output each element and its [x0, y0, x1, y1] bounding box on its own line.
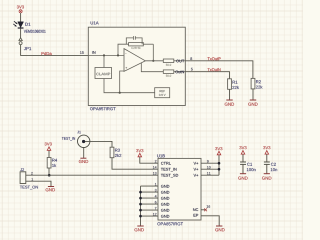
V+ pins: [201, 155, 219, 175]
feedback value text: [131, 47, 140, 49]
junction: [119, 92, 121, 94]
junction: [103, 54, 105, 56]
pin number 2: [155, 160, 157, 162]
pin names V+: [194, 162, 199, 177]
GND pin names: [161, 185, 169, 218]
wire R3 to U1B TEST_IN: [112, 158, 158, 170]
input polarity marks: [124, 52, 127, 54]
wire J2 pin1 to gnd: [26, 181, 51, 186]
junction: [117, 54, 119, 56]
resistor R4: [47, 158, 51, 169]
wire IN to amp: [88, 54, 123, 56]
feedback network: [118, 36, 153, 61]
power port 3V3 (top, circle style): [19, 10, 22, 13]
wire OUTN to R1: [185, 72, 229, 79]
TEST_ON label: [20, 186, 38, 190]
pin number 2: [31, 172, 33, 174]
wire 3V3 to R4: [48, 151, 50, 158]
connector J1 TEST_IN: [78, 135, 90, 147]
junction node TEST_SD: [48, 174, 51, 177]
pin name CTRL: [161, 162, 171, 165]
GND pins bus: [141, 186, 159, 226]
pin name OUTN: [175, 70, 184, 73]
CLAMP block: [95, 68, 112, 79]
ground under C1: [240, 173, 246, 175]
connector J2: [20, 172, 26, 184]
wire R2 to gnd: [252, 89, 254, 100]
NC pin 16: [201, 209, 206, 211]
U1A designator: [91, 21, 99, 24]
internal resistor OUTN: [163, 70, 174, 74]
pin name TEST_SD: [161, 174, 178, 178]
wire 3V3 to D1: [20, 13, 22, 22]
OUTN riser: [141, 63, 163, 72]
pin number 8: [190, 57, 192, 60]
wire J2 pin2 to U1B TEST_SD: [26, 174, 158, 176]
pin number 13: [153, 172, 156, 174]
capacitor C2: [263, 146, 270, 149]
net label TxOutP: [207, 57, 220, 60]
ground under R2: [250, 99, 256, 101]
ground under C2: [264, 173, 270, 175]
U1A value OPA857IRGT: [90, 107, 116, 110]
U1B designator: [157, 154, 165, 157]
wire D1 to JP1: [20, 28, 22, 38]
ground under R1: [226, 99, 232, 101]
pin name TEST_IN: [161, 168, 177, 172]
clamp feed wire: [103, 55, 105, 67]
GND pin numbers 1 3 4 6 7 12: [153, 183, 157, 215]
U1B value OPA857IRGT: [157, 222, 183, 225]
junction: [152, 60, 154, 62]
wire OUT to R2: [185, 61, 253, 79]
op-amp triangle: [124, 49, 145, 72]
wire R1 to gnd: [229, 89, 231, 100]
wire J1 to gnd: [83, 148, 85, 159]
TEST_IN label: [62, 137, 75, 141]
pin number 11: [207, 172, 210, 174]
pin number 1: [32, 178, 34, 180]
JP1 designator: [24, 47, 31, 50]
ground under J2: [48, 186, 54, 188]
op-amp U1B body: [158, 158, 201, 220]
net label TxOutN: [207, 68, 220, 71]
wire JP1 to U1A IN: [21, 45, 89, 56]
internal resistor OUT: [163, 59, 174, 63]
junction dots V+: [218, 162, 221, 171]
clamp lower wire: [104, 79, 155, 93]
power port 3V3 at U1B: [215, 147, 222, 150]
net label PdDa: [42, 52, 52, 55]
D1 designator: [25, 23, 30, 26]
pin number 14: [153, 166, 157, 168]
resistor R1: [228, 79, 232, 90]
REF block: [155, 88, 170, 98]
junction dots on bus: [139, 191, 142, 218]
op-amp U1A body: [88, 27, 185, 105]
capacitor C1: [239, 146, 246, 149]
D1 value VEMD1060X01: [24, 30, 46, 33]
pin name OUT: [176, 60, 184, 63]
ground under U1B bus: [137, 225, 143, 227]
resistor R2: [251, 78, 255, 89]
wire R4 to node: [48, 168, 50, 175]
EP pin to gnd: [201, 216, 219, 226]
pin name IN: [92, 51, 95, 54]
ground at EP: [216, 225, 222, 227]
pin number 10: [207, 166, 210, 168]
output wire OUT: [145, 60, 163, 62]
resistor R3: [110, 147, 114, 158]
power port 3V3 at CTRL: [136, 149, 143, 152]
power port 3V3 above R4: [45, 142, 52, 145]
photodiode D1: [13, 21, 23, 28]
pin number 15: [80, 51, 84, 54]
ground under J1: [80, 157, 86, 159]
jumper JP1: [19, 38, 22, 45]
wire J1 to R3: [85, 141, 112, 147]
plus input wire: [120, 71, 124, 93]
wire 3V3 to U1B CTRL: [140, 157, 158, 163]
pin number 9: [207, 160, 209, 162]
pin number 5: [191, 68, 193, 71]
